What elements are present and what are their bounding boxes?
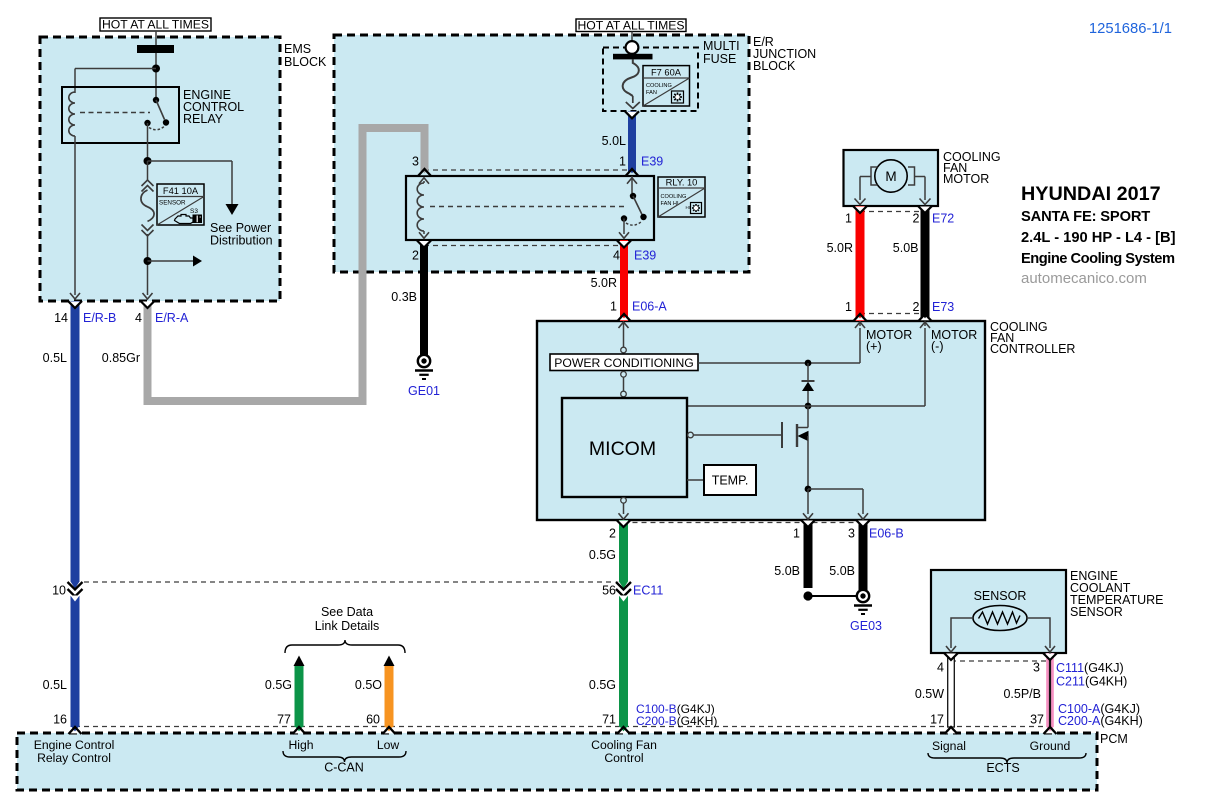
svg-text:MULTI: MULTI <box>703 39 740 53</box>
svg-text:Signal: Signal <box>932 739 966 753</box>
svg-text:GE01: GE01 <box>408 384 440 398</box>
svg-text:4: 4 <box>937 661 944 675</box>
svg-text:C111(G4KJ): C111(G4KJ) <box>1056 661 1124 675</box>
svg-text:SENSOR: SENSOR <box>1070 605 1123 619</box>
svg-text:GE03: GE03 <box>850 619 882 633</box>
svg-text:RLY. 10: RLY. 10 <box>666 178 698 188</box>
svg-text:56: 56 <box>602 584 616 598</box>
svg-text:BLOCK: BLOCK <box>753 59 796 73</box>
svg-text:2: 2 <box>412 249 419 263</box>
svg-text:SENSOR: SENSOR <box>159 200 186 207</box>
svg-text:automecanico.com: automecanico.com <box>1021 270 1147 287</box>
svg-text:(-): (-) <box>931 340 944 354</box>
svg-text:E39: E39 <box>634 249 656 263</box>
svg-text:High: High <box>288 738 313 752</box>
svg-text:60: 60 <box>366 713 380 727</box>
svg-text:5.0B: 5.0B <box>829 564 855 578</box>
svg-text:2: 2 <box>609 527 616 541</box>
svg-text:HI: HI <box>686 205 691 210</box>
svg-text:BLOCK: BLOCK <box>284 55 327 69</box>
svg-text:EC11: EC11 <box>633 584 663 598</box>
svg-text:TEMP.: TEMP. <box>712 474 749 488</box>
svg-text:5.0L: 5.0L <box>602 134 626 148</box>
svg-text:5.0B: 5.0B <box>774 564 800 578</box>
svg-text:71: 71 <box>602 713 616 727</box>
svg-text:POWER CONDITIONING: POWER CONDITIONING <box>554 356 693 370</box>
svg-text:PCM: PCM <box>1100 732 1128 746</box>
svg-text:MOTOR: MOTOR <box>943 172 989 186</box>
svg-text:0.3B: 0.3B <box>391 290 417 304</box>
svg-text:CONTROLLER: CONTROLLER <box>990 342 1075 356</box>
svg-text:EMS: EMS <box>284 42 311 56</box>
svg-text:1251686-1/1: 1251686-1/1 <box>1089 21 1172 37</box>
svg-text:ECTS: ECTS <box>986 761 1019 775</box>
svg-text:10: 10 <box>52 584 66 598</box>
svg-text:1: 1 <box>793 527 800 541</box>
svg-text:E39: E39 <box>641 155 663 169</box>
svg-text:0.5W: 0.5W <box>915 687 944 701</box>
svg-text:0.85Gr: 0.85Gr <box>102 351 140 365</box>
svg-text:F41 10A: F41 10A <box>163 186 199 196</box>
svg-text:17: 17 <box>930 713 944 727</box>
svg-text:RELAY: RELAY <box>183 112 224 126</box>
svg-text:COOLING: COOLING <box>661 194 687 200</box>
svg-text:1: 1 <box>610 300 617 314</box>
svg-text:E73: E73 <box>932 300 954 314</box>
svg-text:C211(G4KH): C211(G4KH) <box>1056 675 1127 689</box>
svg-text:C200-B(G4KH): C200-B(G4KH) <box>636 714 717 728</box>
svg-text:5.0R: 5.0R <box>591 276 617 290</box>
svg-text:See Data: See Data <box>321 605 373 619</box>
svg-text:Cooling Fan: Cooling Fan <box>591 738 657 752</box>
svg-text:1: 1 <box>845 300 852 314</box>
svg-text:5.0R: 5.0R <box>827 241 853 255</box>
svg-text:0.5G: 0.5G <box>589 548 616 562</box>
svg-text:2: 2 <box>913 212 920 226</box>
svg-text:2.4L - 190 HP - L4 - [B]: 2.4L - 190 HP - L4 - [B] <box>1021 230 1176 246</box>
svg-text:77: 77 <box>277 713 291 727</box>
svg-text:0.5G: 0.5G <box>265 678 292 692</box>
svg-text:HOT AT ALL TIMES: HOT AT ALL TIMES <box>577 18 684 32</box>
svg-text:HOT AT ALL TIMES: HOT AT ALL TIMES <box>102 18 209 32</box>
svg-text:S3: S3 <box>190 208 198 215</box>
svg-text:0.5P/B: 0.5P/B <box>1003 687 1041 701</box>
svg-text:Engine Cooling System: Engine Cooling System <box>1021 251 1175 267</box>
svg-text:Distribution: Distribution <box>210 234 273 248</box>
svg-text:4: 4 <box>135 311 142 325</box>
svg-text:0.5L: 0.5L <box>43 678 67 692</box>
svg-text:C200-A(G4KH): C200-A(G4KH) <box>1058 714 1143 728</box>
svg-text:Relay Control: Relay Control <box>37 751 111 765</box>
svg-text:Link Details: Link Details <box>315 619 380 633</box>
svg-text:5.0B: 5.0B <box>893 241 919 255</box>
svg-text:Low: Low <box>377 738 400 752</box>
svg-text:37: 37 <box>1030 713 1044 727</box>
svg-text:0.5O: 0.5O <box>355 678 382 692</box>
svg-text:1: 1 <box>845 212 852 226</box>
svg-text:HYUNDAI 2017: HYUNDAI 2017 <box>1021 183 1161 205</box>
svg-text:2: 2 <box>913 300 920 314</box>
svg-text:3: 3 <box>412 155 419 169</box>
svg-text:MICOM: MICOM <box>589 438 656 460</box>
svg-text:FUSE: FUSE <box>703 52 736 66</box>
svg-text:E/R-B: E/R-B <box>83 311 116 325</box>
svg-text:Control: Control <box>604 751 643 765</box>
svg-text:SANTA FE: SPORT: SANTA FE: SPORT <box>1021 209 1150 225</box>
svg-text:F7 60A: F7 60A <box>651 67 682 77</box>
svg-text:E06-A: E06-A <box>632 300 667 314</box>
svg-text:16: 16 <box>53 713 67 727</box>
svg-text:SENSOR: SENSOR <box>974 589 1027 603</box>
svg-text:FAN: FAN <box>646 90 657 96</box>
svg-text:4: 4 <box>613 249 620 263</box>
svg-text:COOLING: COOLING <box>646 83 672 89</box>
svg-text:E/R-A: E/R-A <box>155 311 189 325</box>
svg-text:14: 14 <box>54 311 68 325</box>
svg-text:(+): (+) <box>866 340 882 354</box>
svg-text:M: M <box>885 169 896 184</box>
svg-text:0.5G: 0.5G <box>589 678 616 692</box>
svg-text:3: 3 <box>1033 661 1040 675</box>
svg-text:C-CAN: C-CAN <box>324 761 364 775</box>
svg-text:Engine Control: Engine Control <box>34 738 115 752</box>
svg-text:1: 1 <box>619 155 626 169</box>
svg-text:Ground: Ground <box>1030 739 1071 753</box>
svg-text:0.5L: 0.5L <box>43 351 67 365</box>
svg-text:3: 3 <box>848 527 855 541</box>
svg-text:E06-B: E06-B <box>869 527 904 541</box>
svg-text:E72: E72 <box>932 212 954 226</box>
